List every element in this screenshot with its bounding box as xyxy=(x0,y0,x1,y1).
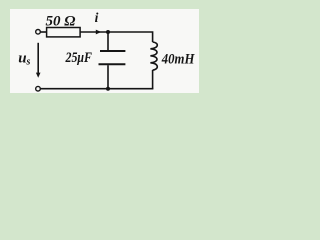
terminal circle top-left xyxy=(36,30,41,35)
resistor R 50 ohm (box) xyxy=(47,28,81,37)
svg-text:50 Ω: 50 Ω xyxy=(46,14,76,30)
wire: terminal to resistor xyxy=(41,31,47,33)
current arrowhead i xyxy=(96,30,101,35)
svg-text:i: i xyxy=(95,10,99,25)
inductor L 40mH (coil) xyxy=(150,42,157,70)
node junction bottom (dot) xyxy=(106,87,110,91)
source voltage arrowhead xyxy=(36,73,41,78)
capacitor bottom stem xyxy=(107,65,109,89)
svg-text:40mH: 40mH xyxy=(161,52,196,68)
capacitor C 25uF top stem xyxy=(107,32,109,50)
source voltage arrow u_s (line) xyxy=(37,43,39,74)
node junction top (dot) xyxy=(106,30,110,34)
terminal circle bottom-left xyxy=(36,86,41,91)
capacitor top plate xyxy=(100,50,125,52)
svg-text:25μF: 25μF xyxy=(65,50,92,66)
wire: inductor bottom lead xyxy=(152,70,154,89)
bottom wire xyxy=(41,88,154,90)
wire: resistor to right corner (top wire) xyxy=(80,32,153,42)
white panel xyxy=(10,9,199,93)
capacitor bottom plate xyxy=(99,63,126,65)
